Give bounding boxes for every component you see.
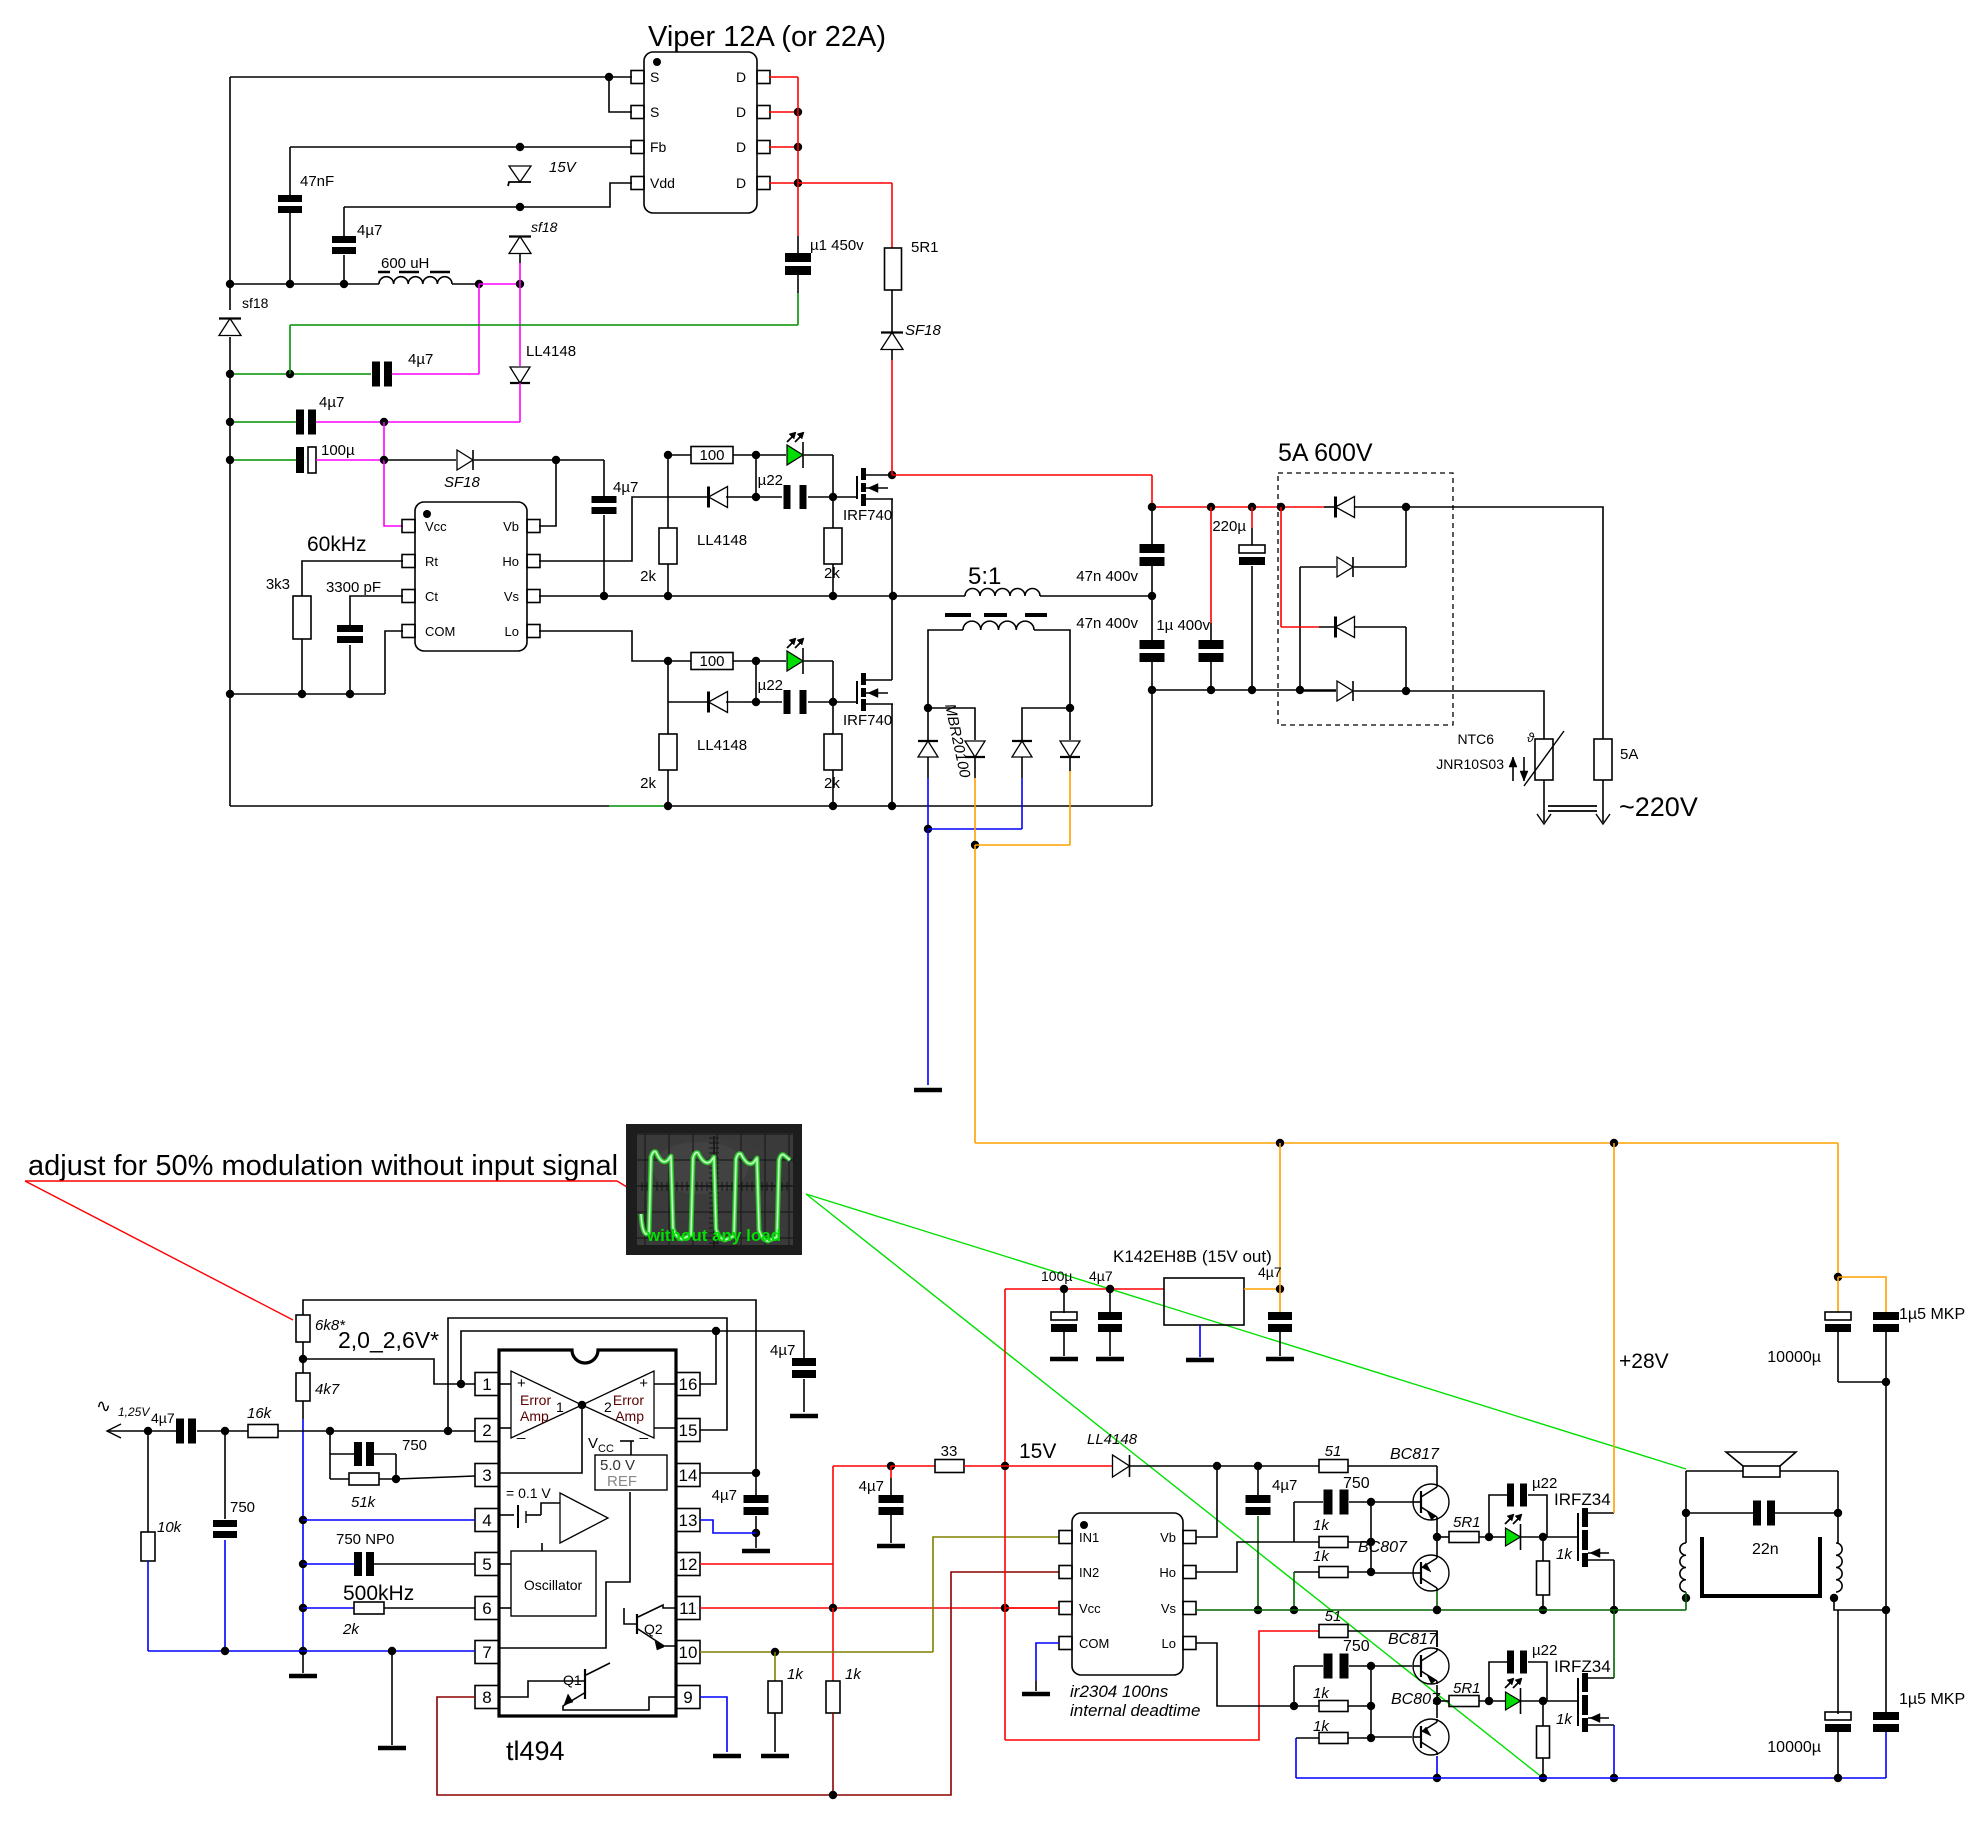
svg-text:750: 750 [402,1437,427,1454]
IC U2 half-bridge driver 60kHz [415,502,527,651]
svg-text:D: D [736,175,746,191]
svg-text:CC: CC [598,1443,614,1455]
wire pin8 maroon to IN2 [437,1572,1059,1795]
svg-text:LL4148: LL4148 [526,343,576,360]
wire Ho to RC network [1196,1542,1294,1572]
wire pin13 blue [700,1520,756,1533]
svg-text:1: 1 [482,1375,491,1394]
U3 pin 12 [676,1553,700,1576]
resistor 100 lower [668,660,691,662]
svg-text:47n 400v: 47n 400v [1076,615,1138,632]
svg-text:12: 12 [679,1555,698,1574]
resistor 33 [891,1465,935,1467]
svg-text:BC807: BC807 [1358,1539,1408,1556]
svg-text:4: 4 [482,1511,491,1530]
capacitor 4u7 (row2) [372,362,380,387]
capacitor 750 (lower) [1294,1665,1323,1667]
svg-text:sf18: sf18 [531,219,558,235]
svg-text:Viper 12A (or 22A): Viper 12A (or 22A) [648,21,886,53]
U3 pin 3 [475,1464,499,1487]
svg-text:_: _ [516,1423,526,1440]
U2 pin COM [402,625,415,638]
wire pin9 blue [700,1697,727,1752]
wire red to K142 [1005,1288,1164,1290]
wire S1 to left rail [609,76,632,78]
svg-text:µ1 450v: µ1 450v [810,237,864,254]
wire 1k to Vs [1293,1572,1295,1610]
capacitor 1u5 MKP top [1873,1312,1899,1320]
resistor 1k gate lower [1542,1701,1544,1726]
resistor 6k8* [296,1315,310,1342]
svg-text:3300 pF: 3300 pF [326,579,381,596]
LED lower [756,660,786,662]
capacitor u22 upper [668,496,710,498]
svg-text:4µ7: 4µ7 [319,394,344,411]
svg-text:1: 1 [556,1399,564,1415]
diode D3 [1022,708,1070,740]
svg-text:4µ7: 4µ7 [770,1342,795,1359]
resistor 16k [248,1425,278,1438]
svg-text:5: 5 [482,1555,491,1574]
svg-text:16: 16 [679,1375,698,1394]
svg-text:+: + [517,1375,526,1392]
svg-text:Vb: Vb [503,519,519,534]
svg-text:1,25V: 1,25V [118,1405,150,1419]
U3 error amp 1 [511,1371,582,1438]
IC U3 tl494 body [499,1350,676,1716]
svg-text:Amp: Amp [520,1408,549,1424]
fuse 5A [1594,739,1612,780]
bridge diode B1 [1324,506,1336,508]
svg-text:7: 7 [482,1643,491,1662]
svg-text:sf18: sf18 [242,295,269,311]
svg-text:14: 14 [679,1466,698,1485]
U3 pin 2 [475,1419,499,1442]
blue COM rail [1296,1777,1886,1779]
wire orange to caps [1837,1143,1839,1277]
inductor left (output choke) [1680,1543,1686,1592]
svg-text:LL4148: LL4148 [697,737,747,754]
svg-text:100µ: 100µ [321,442,355,459]
resistor 51 lower [1319,1625,1348,1638]
svg-text:∿: ∿ [96,1396,111,1416]
diode D4 [1069,708,1071,740]
svg-text:5.0 V: 5.0 V [600,1457,635,1474]
svg-text:3k3: 3k3 [266,576,290,593]
svg-text:4µ7: 4µ7 [859,1478,884,1495]
svg-text:COM: COM [425,624,455,639]
wire 100u to SF18 diode [384,459,456,461]
Vs rail [539,595,893,597]
U5 pin Vb [1183,1531,1196,1544]
svg-text:NTC6: NTC6 [1457,731,1494,747]
resistor 1k gate upper [1542,1537,1544,1561]
svg-text:BC817: BC817 [1388,1631,1438,1648]
wire green row4 [230,459,296,461]
svg-text:220µ: 220µ [1212,518,1246,535]
svg-text:tl494: tl494 [506,1736,565,1766]
diode D2 [928,708,975,740]
capacitor u22 upper drive [1489,1495,1507,1537]
resistor 5R1 upper [1437,1536,1449,1538]
wire pin2 to pin15 over-the-top [448,1318,727,1431]
svg-text:BC817: BC817 [1390,1446,1440,1463]
wire red 15V vertical [1004,1289,1006,1740]
wire blue to COM rail [1295,1738,1297,1778]
svg-text:100: 100 [699,447,724,464]
U5 pin IN2 [1059,1566,1072,1579]
capacitor 4u7 bootstrap ir2304 [1257,1466,1259,1495]
svg-text:4µ7: 4µ7 [712,1487,737,1504]
svg-text:+28V: +28V [1619,1350,1669,1373]
transistor BC807 lower [1371,1736,1412,1738]
svg-text:Error: Error [613,1392,644,1408]
diode LL4148 (15V to bootstrap) [1005,1465,1112,1467]
bottom ground rail [230,805,609,807]
wire magenta to Vcc pin [316,459,384,461]
secondary winding [963,621,1034,630]
wire pin10 olive [700,1651,933,1653]
capacitor 10000u top [1825,1312,1851,1320]
svg-text:47nF: 47nF [300,173,334,190]
resistor 1k (lower a) [1294,1705,1319,1707]
resistor 2k upper-left [667,497,669,528]
svg-text:5R1: 5R1 [1453,1514,1481,1531]
wire pin14 5V ref net [700,1472,756,1474]
svg-text:5:1: 5:1 [968,563,1001,590]
wire red feed lower [1005,1631,1319,1740]
wire divider to pin1 [303,1359,475,1384]
svg-text:2k: 2k [342,1621,360,1638]
U5 pin Vs [1183,1602,1196,1615]
U1 pin S (left) [631,71,644,84]
capacitor 47nF [289,147,291,195]
U3 pin 8 [475,1686,499,1709]
U2 pin Ho [527,555,540,568]
ground symbol 2 [391,1651,393,1745]
U3 pin 1 [475,1373,499,1396]
core [1702,1537,1820,1596]
blue AC ground rail [148,1650,475,1652]
capacitor u1 450v [797,183,799,236]
svg-text:D: D [736,104,746,120]
MOSFET IRFZ34 lower [1577,1678,1579,1726]
svg-text:IRFZ34: IRFZ34 [1554,1657,1611,1676]
resistor 2k lower-right [832,702,834,734]
svg-text:µ22: µ22 [758,677,783,694]
wire pin12 red to 15V rail [700,1563,833,1565]
wire red from Vdd D pins [769,76,798,78]
wire drain to Vs [1613,1610,1615,1678]
inductor right (output choke) [1836,1543,1842,1592]
U3 pin 14 [676,1464,700,1487]
capacitor 220u [1251,507,1253,528]
wire green feedback net [230,373,371,375]
capacitor u22 lower drive [1489,1662,1507,1701]
svg-text:ϑ: ϑ [1527,730,1535,745]
wire pin11 red [700,1607,1059,1609]
svg-text:2k: 2k [640,775,656,792]
svg-text:adjust for 50% modulation with: adjust for 50% modulation without input … [28,1150,618,1182]
svg-text:Error: Error [520,1392,551,1408]
svg-text:4µ7: 4µ7 [1272,1477,1297,1494]
capacitor 4u7 (Vdd) [343,207,345,236]
svg-text:51k: 51k [351,1494,377,1511]
svg-text:D: D [736,69,746,85]
wire Vcc red [1005,1607,1059,1609]
svg-text:+: + [639,1375,648,1392]
wire blue minus of rectifier [927,757,929,778]
diode LL4148 upper [707,487,710,508]
svg-text:1µ5 MKP: 1µ5 MKP [1899,1691,1965,1708]
svg-text:Vs: Vs [1161,1601,1177,1616]
U5 pin Lo [1183,1637,1196,1650]
svg-text:SF18: SF18 [905,322,942,339]
LED upper drive [1506,1528,1521,1546]
resistor 1k (lower b) [1296,1737,1319,1739]
svg-text:2: 2 [482,1421,491,1440]
svg-text:1k: 1k [787,1666,804,1683]
svg-text:11: 11 [679,1599,697,1618]
wire right column [1885,1382,1887,1610]
svg-text:2: 2 [604,1399,612,1415]
svg-text:IN1: IN1 [1079,1530,1099,1545]
wire green row3 [230,421,296,423]
ground terminal blue [914,1088,942,1093]
wire COM to ground rail [385,631,403,694]
capacitor 47n 400v lower [1151,596,1153,641]
ground symbol 1 [302,1651,304,1673]
wire AC1 to fuse [1406,507,1603,739]
transistor BC817 upper [1371,1501,1413,1503]
svg-text:Fb: Fb [650,139,667,155]
inductor 600 uH [379,277,452,284]
svg-text:2k: 2k [640,568,656,585]
MOSFET IRFZ34 upper [1577,1513,1579,1561]
svg-text:IRF740: IRF740 [843,507,892,524]
diode LL4148 lower [707,692,710,713]
svg-text:1k: 1k [1313,1517,1330,1534]
capacitor 750 (pin3) [329,1431,331,1454]
svg-text:V: V [588,1435,598,1452]
capacitor u22 lower [668,701,710,703]
bridge diode B2 [1300,566,1336,568]
svg-text:100µ: 100µ [1041,1268,1072,1284]
svg-text:Ct: Ct [425,589,438,604]
capacitor 4u7 (15V bypass) [890,1466,892,1478]
svg-text:1µ 400v: 1µ 400v [1156,617,1210,634]
svg-text:1k: 1k [1556,1711,1573,1728]
svg-text:Vcc: Vcc [1079,1601,1101,1616]
U5 pin Ho [1183,1566,1196,1579]
MOSFET Q1 IRF740 upper [833,496,857,498]
wire pin4 blue [303,1519,475,1521]
U3 oscillator [511,1551,596,1616]
wire Fb net [290,146,632,148]
U2 pin Rt [402,555,415,568]
wire Lo to gate network [539,631,668,661]
resistor 10k [147,1431,149,1532]
capacitor 3300 pF [350,596,403,625]
diode SF18 (horizontal) [472,450,474,470]
red callout line [25,1180,617,1182]
wire magenta Vcc net [479,283,520,285]
svg-text:10k: 10k [157,1519,183,1536]
green callout lines from scope [806,1194,1686,1469]
core [945,613,971,617]
green Vs rail [1196,1609,1686,1611]
resistor 1k (upper a) [1294,1541,1319,1543]
resistor 51 upper [1319,1460,1348,1473]
svg-text:1k: 1k [1313,1685,1330,1702]
svg-text:S: S [650,104,659,120]
capacitor 4u7 input [176,1419,184,1444]
U3 pin 9 [676,1686,700,1709]
wire HV+ red [1151,475,1153,507]
U3 pin 4 [475,1509,499,1532]
wire source to COM blue [1613,1725,1615,1778]
U3 transistor Q2 [636,1614,638,1634]
wire Vdd net [344,183,632,207]
wire S1-S2 link [609,77,632,112]
svg-text:4µ7: 4µ7 [151,1410,175,1426]
MOSFET Q2 IRF740 lower [833,701,857,703]
wire to Vb ir2304 [1196,1466,1217,1537]
wire magenta row3 [316,421,520,423]
resistor 100 upper [668,454,691,456]
bridge diode B3 (red feed) [1280,507,1282,627]
U3 EA input stubs [499,1383,511,1385]
svg-text:Lo: Lo [1162,1636,1176,1651]
left rail (vertical) [229,77,231,310]
svg-text:750: 750 [230,1499,255,1516]
wire Ho to gate network [539,497,668,561]
resistor 1k (pin11) [832,1608,834,1681]
svg-text:Rt: Rt [425,554,438,569]
transistor BC807 upper [1371,1572,1413,1574]
svg-text:15: 15 [679,1421,698,1440]
svg-text:8: 8 [482,1688,491,1707]
diode D1 [927,708,929,740]
svg-text:750: 750 [1343,1638,1370,1655]
svg-text:µ22: µ22 [758,472,783,489]
speaker [1743,1466,1780,1477]
bridge diode B4 [1300,690,1336,692]
resistor 5R1 lower [1437,1700,1449,1702]
U3 pin 15 [676,1419,700,1442]
svg-text:Q2: Q2 [644,1621,663,1637]
svg-text:22n: 22n [1752,1541,1779,1558]
svg-text:5R1: 5R1 [1453,1680,1481,1697]
svg-text:S: S [650,69,659,85]
svg-text:Ho: Ho [502,554,519,569]
U3 transistor Q1 [584,1669,586,1699]
wire orange +28V to drain [1613,1143,1615,1513]
base column upper [1370,1502,1372,1572]
capacitor 750 NP0 (pin5) [303,1563,354,1565]
svg-text:Amp: Amp [615,1408,644,1424]
wire olive to IN1 [933,1537,1059,1652]
svg-text:SF18: SF18 [444,474,481,491]
resistor 2k upper-right [832,497,834,528]
svg-text:750: 750 [1343,1475,1370,1492]
U1 pin D1 (right) [757,71,770,84]
svg-text:Vcc: Vcc [425,519,447,534]
svg-text:without any load: without any load [646,1226,781,1245]
svg-text:LL4148: LL4148 [1087,1431,1138,1448]
capacitor 4u7 (K142 in) [1109,1289,1111,1313]
U3 pin 5 [475,1553,499,1576]
svg-text:51: 51 [1325,1608,1342,1625]
capacitor 4u7 (pin14) [755,1473,757,1495]
diode SF18 right [881,331,903,333]
U5 pin COM [1059,1637,1072,1650]
capacitor 22n [1686,1512,1754,1514]
svg-text:10000µ: 10000µ [1767,1349,1821,1366]
diode LL4148 (magenta net) [519,284,521,366]
svg-text:IRFZ34: IRFZ34 [1554,1490,1611,1509]
svg-text:15V: 15V [1019,1440,1056,1463]
resistor 51k [329,1454,331,1479]
wire AC2 to NTC [1406,691,1544,739]
resistor 4k7 [302,1342,304,1373]
capacitor 10000u bottom [1825,1712,1851,1720]
capacitor 47n 400v upper [1151,507,1153,545]
capacitor 4u7 (pin16) [792,1358,816,1366]
svg-text:1µ5 MKP: 1µ5 MKP [1899,1306,1965,1323]
U5 pin IN1 [1059,1531,1072,1544]
U3 pin 16 [676,1373,700,1396]
NTC arrows [1512,757,1514,781]
capacitor 4u7 bootstrap [603,460,605,496]
wire Lo to RC network [1196,1643,1294,1706]
capacitor 1u 400v [1210,507,1212,623]
svg-text:47n 400v: 47n 400v [1076,568,1138,585]
svg-text:D: D [736,139,746,155]
svg-text:~220V: ~220V [1619,792,1698,822]
capacitor 4u7 (row3) [296,410,304,435]
wire drain to HV red [888,471,896,479]
svg-text:100: 100 [699,653,724,670]
NTC thermistor JNR10S03 [1535,739,1553,780]
svg-text:600 uH: 600 uH [381,255,429,272]
svg-text:10: 10 [679,1643,698,1662]
U3 pin 11 [676,1597,700,1620]
svg-text:3: 3 [482,1466,491,1485]
minus rail [1152,689,1336,691]
svg-text:5A 600V: 5A 600V [1278,439,1373,467]
svg-text:4µ7: 4µ7 [357,222,382,239]
svg-text:Vdd: Vdd [650,175,675,191]
svg-text:13: 13 [679,1511,698,1530]
U2 pin Ct [402,590,415,603]
svg-text:15V: 15V [549,159,578,176]
wire speaker left [1686,1470,1743,1472]
LED lower drive [1506,1692,1521,1710]
wire orange plus of rectifier [974,757,976,778]
U2 pin Vb [527,520,540,533]
U3 pin 10 [676,1641,700,1664]
svg-text:2k: 2k [824,565,840,582]
svg-text:_: _ [639,1423,649,1440]
svg-text:COM: COM [1079,1636,1109,1651]
resistor 2k (pin6) [303,1607,354,1609]
svg-text:51: 51 [1325,1443,1342,1460]
wire COM blue to ground [1036,1643,1059,1681]
U1 pin Vdd (left) [631,177,644,190]
U3 error amp 2 [582,1371,654,1438]
svg-text:5A: 5A [1620,746,1638,763]
